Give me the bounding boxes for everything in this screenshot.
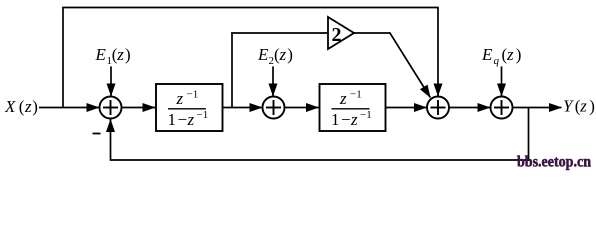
adder S4 (491, 97, 513, 119)
svg-text:): ) (589, 97, 595, 116)
svg-text:2: 2 (332, 24, 342, 46)
svg-text:z: z (506, 45, 514, 64)
svg-text:z: z (176, 89, 184, 108)
svg-text:z: z (579, 97, 587, 116)
svg-text:z: z (350, 110, 358, 129)
svg-text:): ) (516, 45, 522, 64)
svg-text:E: E (481, 45, 493, 64)
svg-text:z: z (187, 110, 195, 129)
wire adder S2 to block H2 (285, 107, 319, 109)
adder S1 (100, 97, 122, 119)
svg-text:−1: −1 (350, 89, 362, 101)
svg-text:−: − (341, 110, 351, 129)
wire block H1 to adder S2 (223, 107, 263, 109)
block H1 accumulator z^-1/(1-z^-1) (156, 84, 223, 131)
svg-text:1: 1 (331, 110, 340, 129)
svg-text:E: E (257, 45, 269, 64)
svg-text:z: z (279, 45, 287, 64)
svg-text:): ) (32, 97, 38, 116)
svg-text:z: z (116, 45, 124, 64)
gain amp A1 (x2) (328, 17, 354, 49)
node feedforward takeoff at x=63 (62, 8, 64, 108)
svg-text:bbs.eetop.cn: bbs.eetop.cn (517, 154, 591, 171)
wire gain amp output horizontal (354, 32, 390, 34)
svg-text:−1: −1 (360, 109, 372, 121)
node feedback takeoff at x=528.5 (528, 108, 530, 161)
svg-text:−1: −1 (187, 89, 199, 101)
svg-text:1: 1 (168, 110, 177, 129)
label minus sign at S1 feedback input (93, 133, 101, 135)
svg-text:z: z (339, 89, 347, 108)
svg-text:): ) (125, 45, 131, 64)
wire top feedforward horizontal (62, 7, 439, 9)
wire E2 into adder S2 top (272, 66, 274, 96)
svg-text:): ) (287, 45, 293, 64)
label Y(z) (563, 97, 595, 116)
wire takeoff to gain amp input (231, 32, 328, 34)
svg-text:−1: −1 (197, 109, 209, 121)
label E2(z) (257, 45, 293, 67)
label X(z) (4, 97, 38, 116)
svg-text:−: − (178, 110, 188, 129)
wire feedback bottom horizontal (110, 159, 530, 161)
wire adder S3 to adder S4 (449, 107, 490, 109)
adder S2 (263, 97, 285, 119)
wire top feedforward down into adder S3 (437, 8, 439, 97)
svg-text:X: X (4, 97, 16, 116)
svg-text:E: E (95, 45, 107, 64)
wire adder S4 to output Y(z) (513, 107, 562, 109)
wire feedback up into adder S1 bottom (110, 120, 112, 161)
label Eq(z) (481, 45, 521, 67)
wire E1 into adder S1 top (110, 66, 112, 96)
svg-text:z: z (24, 97, 32, 116)
svg-text:Y: Y (563, 97, 574, 116)
wire block H2 to adder S3 (386, 107, 427, 109)
label E1(z) (95, 45, 131, 67)
node gain takeoff at x=232 (231, 32, 233, 107)
wire adder S1 to block H1 (122, 107, 156, 109)
svg-text:(: ( (19, 97, 25, 116)
wire input X(z) to adder S1 (39, 107, 99, 109)
adder S3 (427, 97, 449, 119)
wire Eq into adder S4 top (501, 66, 503, 96)
block H2 accumulator z^-1/(1-z^-1) (320, 84, 386, 131)
wire gain amp diagonal into adder S3 (390, 32, 431, 97)
svg-text:q: q (494, 55, 500, 67)
